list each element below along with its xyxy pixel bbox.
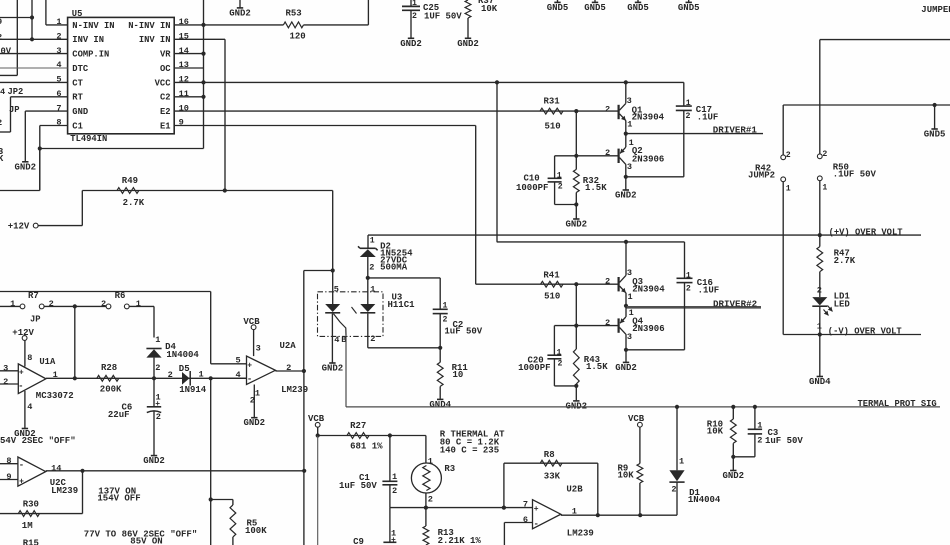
- svg-text:1: 1: [686, 272, 691, 281]
- svg-text:R8: R8: [544, 450, 555, 460]
- svg-text:GND2: GND2: [565, 220, 587, 230]
- svg-text:1: 1: [53, 370, 58, 380]
- svg-text:2N3906: 2N3906: [632, 324, 664, 334]
- svg-text:12: 12: [179, 75, 189, 85]
- svg-text:C2: C2: [160, 93, 171, 103]
- svg-text:10K: 10K: [707, 427, 724, 437]
- svg-text:JUMP2: JUMP2: [748, 171, 775, 181]
- svg-text:2.7K: 2.7K: [834, 256, 856, 266]
- svg-text:VCC: VCC: [155, 78, 172, 88]
- svg-text:2: 2: [605, 276, 610, 286]
- svg-text:120: 120: [290, 32, 306, 42]
- svg-text:R41: R41: [543, 271, 560, 281]
- svg-text:4: 4: [0, 87, 5, 97]
- svg-text:1: 1: [557, 171, 562, 180]
- svg-text:VCB: VCB: [628, 414, 645, 424]
- svg-text:510: 510: [545, 121, 561, 131]
- svg-text:U1A: U1A: [39, 357, 56, 367]
- svg-text:4: 4: [27, 402, 32, 412]
- svg-text:13: 13: [179, 60, 189, 70]
- svg-text:2: 2: [686, 112, 691, 121]
- svg-text:OC: OC: [160, 64, 171, 74]
- svg-text:.1UF: .1UF: [697, 113, 719, 123]
- svg-text:10: 10: [453, 370, 464, 380]
- svg-text:GND2: GND2: [615, 363, 637, 373]
- svg-text:LM239: LM239: [567, 528, 594, 538]
- svg-text:1: 1: [56, 17, 61, 27]
- svg-text:4: 4: [334, 335, 339, 345]
- svg-text:2N3904: 2N3904: [632, 284, 665, 294]
- svg-text:GND5: GND5: [924, 130, 946, 140]
- svg-text:2: 2: [605, 318, 610, 328]
- svg-text:1N4004: 1N4004: [688, 495, 721, 505]
- svg-text:8: 8: [6, 456, 11, 466]
- svg-text:1: 1: [255, 389, 260, 399]
- svg-text:GND2: GND2: [615, 191, 637, 201]
- svg-text:GND5: GND5: [678, 3, 700, 13]
- svg-text:N-INV IN: N-INV IN: [128, 21, 170, 31]
- svg-text:7: 7: [523, 499, 528, 509]
- svg-text:2: 2: [370, 334, 375, 344]
- svg-text:LM239: LM239: [51, 486, 78, 496]
- svg-text:2: 2: [817, 286, 822, 296]
- svg-text:GND2: GND2: [722, 471, 744, 481]
- svg-text:+: +: [155, 400, 160, 409]
- svg-text:1M: 1M: [22, 521, 33, 531]
- svg-text:.1UF: .1UF: [698, 286, 720, 296]
- svg-text:1uF 50V: 1uF 50V: [444, 327, 482, 337]
- svg-text:1: 1: [370, 237, 375, 246]
- svg-text:E1: E1: [160, 121, 171, 131]
- svg-text:5: 5: [334, 284, 339, 294]
- svg-text:154V OFF: 154V OFF: [97, 493, 140, 503]
- svg-text:2: 2: [101, 299, 106, 309]
- svg-text:3: 3: [3, 363, 8, 373]
- svg-text:1: 1: [679, 456, 684, 466]
- svg-text:1: 1: [10, 299, 15, 309]
- svg-text:-: -: [533, 519, 538, 529]
- svg-text:(-V) OVER VOLT: (-V) OVER VOLT: [828, 327, 903, 337]
- svg-text:INV IN: INV IN: [72, 35, 104, 45]
- svg-text:GND5: GND5: [584, 3, 606, 13]
- svg-text:+: +: [19, 368, 24, 377]
- svg-text:2: 2: [3, 377, 8, 387]
- svg-text:5: 5: [56, 75, 61, 85]
- svg-text:-: -: [247, 375, 252, 385]
- svg-text:+12V: +12V: [8, 221, 30, 231]
- svg-text:R6: R6: [115, 291, 126, 301]
- svg-text:500MA: 500MA: [380, 262, 408, 272]
- svg-text:INV IN: INV IN: [139, 35, 171, 45]
- svg-text:CT: CT: [72, 78, 83, 88]
- svg-text:GND5: GND5: [547, 3, 569, 13]
- svg-text:2.7K: 2.7K: [123, 198, 145, 208]
- svg-text:1: 1: [370, 284, 375, 294]
- svg-text:R37: R37: [478, 0, 494, 6]
- svg-text:2: 2: [392, 486, 397, 496]
- svg-text:-: -: [18, 382, 23, 392]
- svg-text:DRIVER#2: DRIVER#2: [713, 298, 757, 309]
- svg-text:+: +: [391, 536, 396, 545]
- svg-text:R15: R15: [23, 539, 39, 545]
- svg-text:2N3906: 2N3906: [632, 154, 664, 164]
- svg-text:R3: R3: [444, 464, 455, 474]
- svg-text:2: 2: [56, 32, 61, 42]
- svg-text:LED: LED: [834, 299, 851, 309]
- svg-text:11: 11: [179, 89, 189, 99]
- svg-text:1: 1: [572, 506, 577, 516]
- svg-text:9: 9: [179, 118, 184, 128]
- svg-text:1uF 50V: 1uF 50V: [765, 436, 803, 446]
- svg-text:2: 2: [671, 485, 676, 495]
- svg-text:2: 2: [757, 436, 762, 446]
- svg-text:COMP.IN: COMP.IN: [72, 50, 109, 60]
- svg-text:JP2: JP2: [8, 87, 24, 97]
- svg-text:GND4: GND4: [809, 377, 831, 387]
- svg-text:C9: C9: [353, 537, 364, 545]
- svg-text:R28: R28: [101, 363, 117, 373]
- svg-text:15: 15: [179, 32, 189, 42]
- svg-text:DRIVER#1: DRIVER#1: [713, 125, 758, 136]
- svg-text:C1: C1: [72, 121, 83, 131]
- svg-text:3: 3: [627, 332, 632, 342]
- svg-text:2: 2: [686, 285, 691, 294]
- svg-text:2: 2: [156, 412, 161, 422]
- svg-text:DTC: DTC: [72, 64, 89, 74]
- svg-text:GND2: GND2: [457, 39, 479, 49]
- svg-text:681 1%: 681 1%: [350, 441, 383, 451]
- svg-text:0V: 0V: [1, 47, 12, 57]
- svg-text:6: 6: [523, 515, 528, 525]
- svg-text:8: 8: [56, 118, 61, 128]
- svg-text:GND5: GND5: [627, 3, 649, 13]
- svg-text:E2: E2: [160, 107, 171, 117]
- svg-text:VR: VR: [160, 50, 171, 60]
- svg-text:2: 2: [786, 151, 791, 160]
- svg-text:5: 5: [236, 356, 241, 366]
- svg-text:JP: JP: [30, 315, 41, 325]
- svg-text:(+V) OVER VOLT: (+V) OVER VOLT: [829, 227, 904, 237]
- svg-text:1: 1: [199, 370, 204, 380]
- svg-text:9: 9: [0, 17, 2, 27]
- svg-text:GND4: GND4: [429, 400, 451, 410]
- svg-text:1: 1: [412, 0, 417, 8]
- svg-text:2: 2: [155, 363, 160, 373]
- svg-text:GND2: GND2: [243, 418, 265, 428]
- svg-text:2N3904: 2N3904: [632, 113, 665, 123]
- svg-text:R31: R31: [544, 97, 561, 107]
- svg-text:1: 1: [155, 335, 160, 345]
- svg-text:4: 4: [56, 60, 61, 70]
- svg-text:2: 2: [822, 150, 827, 159]
- svg-text:2: 2: [443, 315, 448, 324]
- svg-text:3: 3: [56, 46, 61, 56]
- svg-text:MC33072: MC33072: [36, 391, 74, 401]
- svg-text:2: 2: [412, 12, 417, 21]
- svg-text:2.21K 1%: 2.21K 1%: [438, 536, 482, 545]
- svg-text:+: +: [247, 361, 252, 370]
- svg-text:2: 2: [0, 118, 2, 128]
- svg-text:100K: 100K: [245, 526, 267, 536]
- svg-text:R49: R49: [122, 176, 138, 186]
- svg-text:1.5K: 1.5K: [586, 362, 608, 372]
- svg-text:10: 10: [179, 103, 189, 113]
- svg-text:85V ON: 85V ON: [130, 537, 162, 545]
- svg-text:33K: 33K: [544, 471, 561, 481]
- svg-text:U2B: U2B: [566, 485, 583, 495]
- svg-text:2: 2: [605, 104, 610, 114]
- svg-text:2: 2: [168, 370, 173, 380]
- svg-text:1: 1: [786, 184, 791, 193]
- svg-text:1000PF: 1000PF: [516, 183, 548, 193]
- svg-text:16: 16: [179, 17, 189, 27]
- svg-text:1N914: 1N914: [179, 385, 207, 395]
- svg-text:1: 1: [443, 302, 448, 311]
- svg-text:1: 1: [822, 183, 827, 192]
- svg-text:GND2: GND2: [400, 39, 422, 49]
- svg-text:50V: 50V: [446, 12, 463, 22]
- svg-text:-: -: [19, 461, 24, 471]
- svg-text:GND2: GND2: [14, 162, 36, 172]
- svg-text:GND2: GND2: [322, 364, 344, 374]
- svg-text:GND: GND: [72, 107, 88, 117]
- svg-text:GND2: GND2: [143, 456, 165, 466]
- svg-text:1.5K: 1.5K: [585, 183, 607, 193]
- svg-text:RT: RT: [72, 93, 83, 103]
- svg-text:9: 9: [6, 472, 11, 482]
- svg-text:1: 1: [392, 472, 397, 482]
- svg-text:U2A: U2A: [280, 341, 297, 351]
- svg-text:R30: R30: [23, 500, 39, 510]
- svg-text:2: 2: [369, 262, 374, 272]
- svg-text:TL494IN: TL494IN: [70, 134, 107, 144]
- svg-text:.1UF 50V: .1UF 50V: [833, 170, 877, 180]
- svg-text:1: 1: [557, 348, 562, 357]
- svg-text:2: 2: [0, 33, 2, 43]
- svg-text:1N4004: 1N4004: [166, 350, 199, 360]
- svg-text:R7: R7: [28, 291, 39, 301]
- svg-text:1UF: 1UF: [424, 12, 440, 22]
- svg-text:1: 1: [136, 299, 141, 309]
- svg-text:R27: R27: [350, 421, 366, 431]
- svg-text:7: 7: [56, 103, 61, 113]
- svg-text:2: 2: [286, 363, 291, 373]
- svg-text:22uF: 22uF: [108, 410, 130, 420]
- svg-text:8: 8: [27, 353, 32, 363]
- svg-text:U5: U5: [72, 9, 83, 19]
- svg-text:2: 2: [558, 359, 563, 368]
- svg-text:1: 1: [628, 292, 633, 302]
- svg-text:3: 3: [256, 344, 261, 354]
- svg-text:2: 2: [428, 495, 433, 505]
- svg-text:6: 6: [56, 89, 61, 99]
- svg-text:1: 1: [757, 421, 762, 431]
- svg-text:1000PF: 1000PF: [518, 363, 550, 373]
- svg-text:54V 2SEC "OFF": 54V 2SEC "OFF": [0, 436, 76, 446]
- svg-text:JUMPER: JUMPER: [921, 5, 950, 15]
- svg-text:14: 14: [51, 463, 61, 473]
- svg-text:H11C1: H11C1: [388, 300, 416, 310]
- svg-text:2: 2: [558, 183, 563, 192]
- svg-text:2: 2: [49, 299, 54, 309]
- svg-text:R53: R53: [286, 8, 302, 18]
- svg-text:200K: 200K: [100, 385, 122, 395]
- svg-text:+: +: [19, 477, 24, 486]
- svg-text:GND2: GND2: [229, 8, 251, 18]
- svg-text:1uF 50V: 1uF 50V: [339, 481, 377, 491]
- svg-text:1: 1: [686, 99, 691, 108]
- svg-text:1: 1: [627, 120, 632, 130]
- svg-text:14: 14: [179, 46, 189, 56]
- svg-text:C10: C10: [524, 174, 540, 184]
- svg-text:TERMAL PROT SIG: TERMAL PROT SIG: [858, 399, 937, 409]
- svg-text:140 C = 235: 140 C = 235: [440, 445, 499, 455]
- svg-text:3: 3: [627, 162, 632, 172]
- svg-text:N-INV IN: N-INV IN: [72, 21, 114, 31]
- svg-text:510: 510: [544, 291, 560, 301]
- svg-text:JP: JP: [9, 105, 20, 115]
- svg-text:+: +: [534, 505, 539, 514]
- svg-text:10K: 10K: [618, 471, 635, 481]
- svg-text:D5: D5: [179, 364, 190, 374]
